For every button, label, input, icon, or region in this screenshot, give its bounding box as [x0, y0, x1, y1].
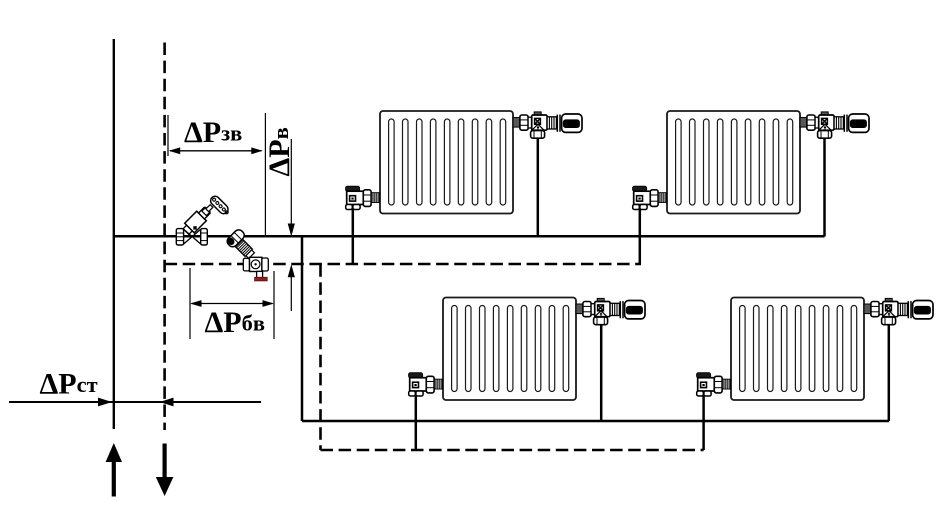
radiator R2 [667, 111, 800, 214]
lockshield valve R3 [409, 373, 443, 396]
lockshield valve R1 [346, 186, 380, 209]
svg-text:ΔРст: ΔРст [40, 367, 98, 400]
dimension dP_zv [168, 113, 265, 237]
dimension dP_bv [190, 268, 274, 339]
branch supply main [302, 420, 889, 423]
pipe R3 supply [600, 324, 603, 421]
pipe R2 supply [823, 138, 826, 237]
flow arrow down [156, 444, 174, 497]
balancing valve BV1 on supply [176, 194, 231, 245]
pipe R4 return [702, 396, 705, 450]
branch return main [321, 449, 704, 452]
radiator R3 [443, 298, 576, 401]
radiator R1 [380, 111, 513, 214]
thermostatic valve R1 [513, 112, 582, 138]
svg-text:ΔРв: ΔРв [263, 127, 296, 176]
return riser [163, 43, 166, 431]
pipe R1 return [352, 209, 355, 264]
dimension dP_v [263, 127, 296, 311]
pipe R4 supply [888, 324, 891, 421]
svg-text:ΔРбв: ΔРбв [205, 306, 266, 339]
svg-text:ΔРзв: ΔРзв [184, 116, 242, 149]
dimension dP_st [9, 367, 261, 406]
branch return drop [319, 264, 322, 450]
supply riser [113, 39, 115, 429]
supply main [113, 235, 825, 238]
lockshield valve R2 [633, 186, 667, 209]
pipe R1 supply [537, 138, 540, 237]
lockshield valve R4 [697, 373, 731, 396]
flow arrow up [106, 443, 122, 497]
branch supply drop [301, 237, 304, 422]
thermostatic valve R3 [576, 298, 645, 324]
balancing valve BV2 with drain on return [225, 228, 268, 281]
pipe R2 return [639, 209, 642, 264]
return main [165, 263, 641, 266]
thermostatic valve R2 [800, 112, 869, 138]
thermostatic valve R4 [864, 298, 933, 324]
radiator R4 [731, 298, 864, 401]
pipe R3 return [415, 396, 418, 450]
